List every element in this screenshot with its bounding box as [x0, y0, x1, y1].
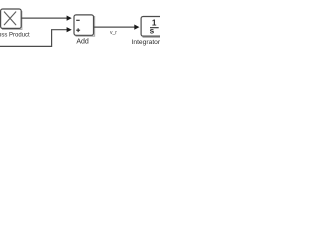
- wire from left edge to Add plus input: [0, 30, 67, 47]
- wire Cross Product output to Add minus input: [21, 17, 67, 19]
- arrowhead at Integrator input: [134, 25, 139, 30]
- svg-text:s: s: [150, 27, 155, 36]
- arrowhead at Add minus input: [67, 16, 72, 21]
- svg-text:Add: Add: [76, 39, 89, 46]
- block Integrator: [141, 17, 167, 38]
- svg-text:Cross Product: Cross Product: [0, 33, 30, 39]
- minus sign: [76, 19, 80, 21]
- svg-text:Integrator: Integrator: [132, 39, 161, 46]
- block Add: [74, 15, 95, 36]
- svg-text:v_r: v_r: [110, 30, 117, 36]
- Integrator fraction bar: [150, 27, 159, 29]
- block Cross Product: [1, 9, 22, 29]
- plus sign: [76, 28, 80, 32]
- X icon of Cross Product: [4, 12, 16, 25]
- wire Add output to Integrator: [94, 26, 135, 28]
- arrowhead at Add plus input: [67, 27, 72, 32]
